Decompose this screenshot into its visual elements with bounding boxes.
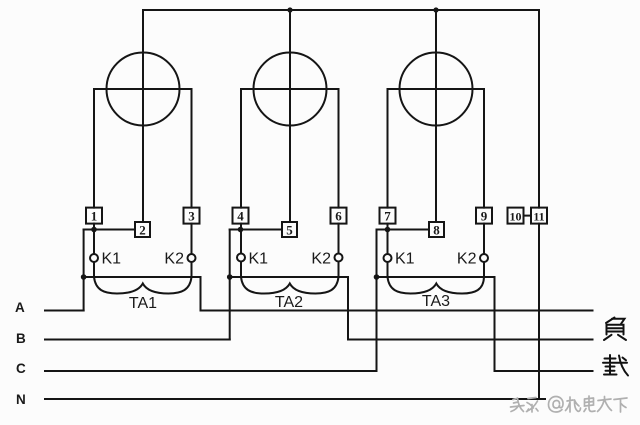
wire K2 TA1 to primary <box>191 262 193 277</box>
svg-text:4: 4 <box>237 209 244 224</box>
terminal 5 <box>282 222 297 238</box>
meter M2 <box>241 10 339 222</box>
wire neutral N <box>45 398 545 400</box>
wire phase A to load <box>201 310 593 312</box>
wire phase B left <box>45 339 230 341</box>
wire terminal 2 voltage tap TA1 <box>84 229 135 231</box>
wire K2 TA3 to primary <box>483 262 485 277</box>
current transformer TA3 secondary winding <box>388 277 485 294</box>
terminal K2 of TA1 <box>188 254 196 262</box>
terminal 1 <box>86 208 102 224</box>
svg-text:7: 7 <box>384 209 391 224</box>
node junction dot TA1 primary left <box>81 274 87 280</box>
wire terminal 1 to K1 of TA1 <box>93 224 95 254</box>
svg-text:K1: K1 <box>102 251 122 268</box>
svg-text:5: 5 <box>286 223 293 238</box>
svg-text:TA1: TA1 <box>129 295 157 312</box>
wire K1 TA3 to primary <box>387 262 389 277</box>
terminal K2 of TA3 <box>480 254 488 262</box>
wire terminal 8 voltage tap TA3 <box>377 229 430 231</box>
svg-text:11: 11 <box>533 210 544 224</box>
svg-text:K2: K2 <box>311 251 331 268</box>
svg-text:K2: K2 <box>164 251 184 268</box>
wire phase B riser <box>229 230 231 340</box>
terminal 11 <box>531 208 547 224</box>
wire link terminal 10 to terminal 11 <box>524 215 532 217</box>
label load char zai <box>603 355 628 376</box>
current transformer TA2 secondary winding <box>241 277 339 294</box>
svg-text:TA2: TA2 <box>275 294 303 311</box>
wire terminal 6 to K2 of TA2 <box>338 224 340 254</box>
wire phase C to load <box>495 370 593 372</box>
svg-text:K2: K2 <box>457 251 477 268</box>
terminal 2 <box>135 222 150 238</box>
terminal 7 <box>380 208 396 224</box>
wire phase B to load <box>348 339 593 341</box>
wire K2 TA2 to primary <box>338 262 340 278</box>
svg-text:8: 8 <box>433 223 440 238</box>
wire right drop from terminal 11 to N line <box>538 224 540 399</box>
terminal 8 <box>429 222 444 238</box>
terminal K1 of TA2 <box>237 254 245 262</box>
svg-text:9: 9 <box>481 209 488 224</box>
node junction dot terminal1 wire TA1 <box>91 227 97 233</box>
label load char fu <box>604 318 626 341</box>
wire K1 TA2 to primary <box>240 262 242 278</box>
wire phase C left <box>45 370 377 372</box>
svg-text:1: 1 <box>91 209 98 224</box>
meter M3 <box>388 10 485 222</box>
node junction dot terminal4 wire TA2 <box>238 227 244 233</box>
current transformer TA1 secondary winding <box>94 277 192 294</box>
wire terminal 3 to K2 of TA1 <box>191 224 193 254</box>
node junction dot TA2 primary left <box>227 274 233 280</box>
watermark toutiao <box>511 396 628 412</box>
svg-text:N: N <box>16 392 27 407</box>
current transformer TA1 primary <box>84 277 201 311</box>
node junction dot TA3 primary left <box>374 274 380 280</box>
svg-text:K1: K1 <box>249 251 269 268</box>
node junction dot top bus meter3 <box>433 7 438 12</box>
svg-text:C: C <box>16 361 27 376</box>
svg-text:B: B <box>16 331 27 346</box>
wire terminal 5 voltage tap TA2 <box>230 229 282 231</box>
current transformer TA3 primary <box>377 277 495 371</box>
terminal 6 <box>331 208 347 224</box>
svg-text:K1: K1 <box>395 251 415 268</box>
svg-text:3: 3 <box>188 209 195 224</box>
node junction dot terminal7 wire TA3 <box>385 227 391 233</box>
svg-text:2: 2 <box>139 223 146 238</box>
terminal K1 of TA3 <box>384 254 392 262</box>
meter M1 <box>94 10 192 222</box>
terminal 10 <box>508 208 524 224</box>
node junction dot top bus meter2 <box>287 7 292 12</box>
wire terminal 4 to K1 of TA2 <box>240 224 242 254</box>
svg-text:A: A <box>15 300 26 315</box>
terminal 4 <box>233 208 249 224</box>
terminal 3 <box>184 208 200 224</box>
wire terminal 7 to K1 of TA3 <box>387 224 389 254</box>
wire top bus <box>143 9 539 11</box>
wire terminal 9 to K2 of TA3 <box>483 224 485 254</box>
wire phase A left <box>45 310 84 312</box>
wire phase A riser <box>83 230 85 311</box>
wire K1 TA1 to primary <box>93 262 95 277</box>
svg-text:6: 6 <box>335 209 342 224</box>
terminal K1 of TA1 <box>90 254 98 262</box>
wire right drop from bus to terminal 11 <box>538 10 540 208</box>
current transformer TA2 primary <box>230 277 348 340</box>
svg-text:10: 10 <box>510 210 522 224</box>
svg-text:TA3: TA3 <box>422 293 450 310</box>
terminal 9 <box>476 208 492 224</box>
terminal K2 of TA2 <box>335 254 343 262</box>
wire phase C riser <box>376 230 378 372</box>
